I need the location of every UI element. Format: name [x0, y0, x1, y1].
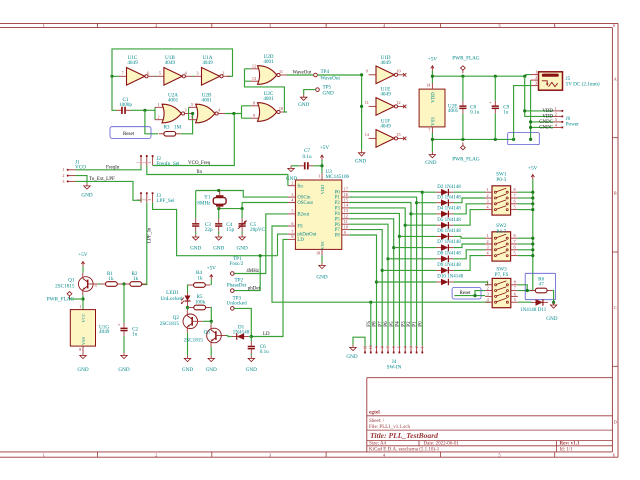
svg-text:22p: 22p	[205, 227, 213, 233]
wire R4 to LED1	[187, 285, 190, 293]
svg-text:4001: 4001	[168, 97, 179, 103]
svg-text:7: 7	[514, 239, 516, 244]
svg-text:VSS: VSS	[81, 336, 86, 345]
svg-text:3: 3	[148, 199, 152, 201]
svg-text:2: 2	[415, 346, 419, 348]
svg-text:C: C	[614, 305, 617, 310]
svg-text:1N4148: 1N4148	[520, 308, 537, 313]
resistor R5	[188, 294, 211, 310]
svg-text:3: 3	[148, 161, 152, 163]
test point TP5	[316, 85, 334, 97]
svg-text:VDD: VDD	[431, 92, 436, 103]
junction	[531, 208, 534, 211]
svg-text:P0: P0	[418, 321, 423, 327]
svg-text:P4-7: P4-7	[496, 229, 506, 235]
svg-text:To_Ext_LPF: To_Ext_LPF	[89, 177, 115, 182]
junction	[552, 301, 555, 304]
wire D7 to switch	[394, 244, 485, 248]
wire R1 to R2	[122, 283, 125, 285]
svg-text:P7: P7	[378, 321, 383, 327]
wire D8 to switch	[388, 250, 485, 259]
wire R2 right	[146, 283, 148, 286]
svg-text:6: 6	[392, 346, 396, 348]
svg-text:20pVC: 20pVC	[250, 227, 266, 233]
test point TP1	[230, 256, 244, 276]
junction P4	[398, 235, 401, 238]
svg-text:FS: FS	[367, 321, 372, 327]
junction	[531, 242, 534, 245]
inverter U1C	[119, 55, 155, 85]
wire P5	[349, 219, 393, 346]
wire U1C out to U1B in	[155, 75, 156, 77]
svg-text:9: 9	[253, 113, 255, 118]
diode D7	[436, 240, 461, 251]
svg-text:5: 5	[514, 297, 516, 302]
junction	[431, 138, 434, 141]
svg-text:5V DC (2.1mm): 5V DC (2.1mm)	[566, 80, 600, 87]
wire LD from U3	[251, 239, 288, 336]
svg-text:3: 3	[291, 192, 293, 197]
svg-text:B: B	[614, 191, 617, 196]
svg-text:VCO_Freq: VCO_Freq	[188, 161, 211, 166]
svg-text:1: 1	[421, 346, 425, 348]
svg-text:1N4148: 1N4148	[233, 330, 250, 336]
capacitor C2 polarized	[118, 284, 139, 353]
svg-text:P6: P6	[335, 223, 341, 228]
wire TP2 phDet	[234, 256, 260, 291]
wire crystal bottom / OSCout	[219, 203, 288, 209]
junction	[360, 105, 363, 108]
junction	[529, 126, 532, 129]
inverter U1D	[366, 55, 407, 84]
power flag Q1	[47, 292, 83, 303]
svg-text:Date: 2022-06-01: Date: 2022-06-01	[424, 442, 460, 447]
ground C5	[236, 234, 247, 251]
svg-text:P7: P7	[335, 228, 341, 233]
wire J5 sleeve to GND rail	[514, 86, 531, 140]
svg-text:12: 12	[252, 63, 256, 68]
wire Reset stub	[454, 291, 485, 296]
resistor R6	[530, 276, 552, 292]
NOR gate U2D	[251, 54, 288, 85]
svg-text:9: 9	[375, 346, 379, 348]
junction P7	[381, 269, 384, 272]
svg-text:3: 3	[555, 117, 557, 122]
svg-text:1: 1	[62, 167, 64, 172]
svg-text:VDD: VDD	[320, 185, 325, 195]
svg-text:Reset: Reset	[459, 291, 471, 296]
svg-text:13: 13	[344, 208, 348, 213]
svg-text:P1: P1	[413, 321, 418, 327]
junction	[526, 289, 529, 292]
svg-text:LPF_Sel: LPF_Sel	[156, 198, 175, 204]
svg-text:2: 2	[487, 286, 489, 291]
junction	[81, 297, 84, 300]
svg-text:1: 1	[486, 233, 488, 238]
capacitor C8	[459, 76, 479, 139]
svg-text:GND: GND	[323, 91, 334, 97]
svg-text:VDD: VDD	[542, 115, 553, 120]
svg-text:Unlocked: Unlocked	[227, 300, 248, 306]
svg-text:VSS: VSS	[320, 241, 325, 250]
svg-text:MC145106: MC145106	[326, 174, 350, 180]
ground U2E	[425, 152, 436, 166]
svg-text:PWR_FLAG: PWR_FLAG	[47, 297, 75, 303]
svg-text:2: 2	[555, 112, 557, 117]
junction	[531, 191, 534, 194]
junction	[523, 75, 526, 78]
wire Q1 emitter	[82, 295, 84, 309]
junction	[523, 109, 526, 112]
svg-text:1: 1	[555, 106, 557, 111]
svg-text:1k: 1k	[108, 276, 114, 282]
svg-text:1: 1	[79, 304, 81, 309]
svg-text:GNDC: GNDC	[539, 120, 553, 125]
svg-text:GND: GND	[355, 158, 366, 164]
annotation box power gnd	[508, 133, 540, 145]
wire GND rail bottom	[432, 133, 513, 152]
transistor Q1	[55, 273, 98, 296]
power +5V U3	[320, 145, 330, 160]
capacitor C6	[248, 337, 269, 356]
svg-text:12: 12	[344, 214, 348, 219]
svg-text:7: 7	[514, 193, 516, 198]
svg-text:15p: 15p	[226, 227, 234, 233]
resistor R1	[100, 271, 122, 286]
switch SW3	[485, 267, 518, 308]
svg-text:1: 1	[535, 70, 537, 75]
junction	[531, 202, 534, 205]
IC U3 MC145106	[288, 169, 350, 256]
svg-text:5: 5	[159, 70, 161, 75]
svg-text:8: 8	[291, 234, 293, 239]
svg-text:GND: GND	[190, 246, 201, 252]
junction	[241, 207, 244, 210]
capacitor C9 polarized	[489, 76, 510, 139]
connector J5 barrel jack	[531, 70, 600, 91]
inverter U1E	[365, 87, 407, 116]
ground J4	[346, 345, 357, 360]
svg-text:Sheet: /: Sheet: /	[369, 419, 385, 424]
IC U1G 4049 spare	[70, 304, 109, 353]
svg-text:4049: 4049	[202, 60, 213, 66]
svg-text:2: 2	[222, 70, 224, 75]
NOR gate U2A	[155, 92, 192, 123]
ground Q3	[206, 356, 217, 373]
wire P3	[349, 208, 405, 346]
svg-text:7: 7	[386, 346, 390, 348]
svg-text:4001: 4001	[263, 96, 274, 102]
switch SW2	[485, 223, 518, 261]
svg-text:11: 11	[279, 69, 283, 74]
wire U2A out to U2B in	[189, 107, 193, 119]
svg-text:+5V: +5V	[428, 56, 438, 62]
diode D10	[436, 275, 463, 286]
test point TP2	[227, 277, 247, 292]
svg-text:2SC1815: 2SC1815	[55, 283, 75, 289]
junction	[143, 109, 146, 112]
svg-text:3: 3	[94, 283, 96, 288]
wire Q2 emitter to ground	[187, 333, 189, 356]
svg-text:2: 2	[62, 173, 64, 178]
wire switch pin to rail	[518, 209, 533, 211]
svg-text:7: 7	[121, 70, 123, 75]
ground C3	[190, 234, 201, 251]
wire R3 to U2A out	[181, 114, 193, 134]
svg-text:P8: P8	[373, 321, 378, 327]
svg-text:1k: 1k	[133, 276, 139, 282]
svg-text:LPF_In: LPF_In	[148, 227, 153, 243]
resistor R2	[125, 271, 147, 286]
wire LD node	[249, 336, 252, 338]
svg-text:15: 15	[396, 132, 400, 137]
svg-text:7: 7	[291, 229, 293, 234]
svg-text:LD: LD	[297, 238, 304, 243]
svg-text:1: 1	[137, 199, 141, 201]
svg-text:1u: 1u	[503, 110, 509, 116]
svg-text:Id: 1/1: Id: 1/1	[560, 447, 574, 452]
svg-text:7: 7	[514, 286, 516, 291]
junction	[191, 112, 194, 115]
power +5V R4	[207, 266, 217, 280]
svg-text:4001: 4001	[263, 59, 274, 65]
NOR gate U2B	[189, 92, 226, 123]
junction	[494, 138, 497, 141]
svg-text:GND: GND	[77, 367, 88, 373]
capacitor C1	[117, 97, 133, 114]
wire TP4 to buffers	[317, 74, 361, 76]
wire D6 to switch	[399, 236, 485, 238]
wire crystal top / OSCin	[196, 191, 288, 198]
wire switch pin to rail	[518, 191, 533, 193]
ground D11	[546, 302, 557, 321]
wire switch pin to rail	[518, 237, 533, 239]
transistor Q3	[184, 324, 226, 347]
wire C1 left	[112, 76, 117, 110]
svg-text:10: 10	[279, 106, 283, 111]
wire switch pin to rail	[518, 197, 533, 199]
svg-text:1: 1	[318, 174, 320, 179]
diode D8	[436, 251, 461, 262]
ground Q2	[182, 356, 193, 373]
svg-text:GND: GND	[182, 367, 193, 373]
capacitor C4	[215, 209, 234, 235]
svg-text:fin: fin	[297, 184, 303, 189]
svg-text:Rev: v1.1: Rev: v1.1	[560, 442, 580, 447]
inverter U1B	[156, 55, 192, 85]
junction	[360, 73, 363, 76]
svg-text:100k: 100k	[195, 299, 206, 305]
wire P8	[349, 235, 376, 346]
ground buffer rail	[355, 150, 366, 164]
wire TP5 to ground	[304, 90, 316, 95]
svg-text:+5V: +5V	[528, 165, 538, 171]
wire FreqIn	[76, 166, 142, 170]
wire switch +5V rail	[518, 180, 533, 291]
wire buffer input rail	[361, 75, 363, 150]
wire Q1 base to R1	[98, 283, 101, 285]
svg-text:+5V: +5V	[320, 145, 330, 151]
diode D2	[436, 185, 461, 196]
svg-text:4049: 4049	[99, 329, 110, 335]
wire J1 pin2 to ground	[76, 176, 88, 184]
svg-text:2: 2	[535, 75, 537, 80]
power +5V Q1	[78, 252, 88, 267]
NOR gate U2C	[251, 91, 288, 122]
junction	[122, 282, 125, 285]
svg-text:TP4: TP4	[321, 69, 330, 75]
svg-text:3: 3	[486, 199, 488, 204]
wire R5 to Q2 base	[203, 308, 212, 322]
wire U2B out	[225, 106, 250, 118]
wire TP3 to LD node	[234, 308, 251, 336]
svg-text:1k: 1k	[197, 275, 203, 281]
svg-text:1M: 1M	[174, 125, 182, 131]
svg-text:4049: 4049	[380, 60, 391, 66]
power +5V switch rail	[528, 165, 538, 179]
resistor R4	[188, 270, 211, 287]
svg-text:D8 1N4148: D8 1N4148	[437, 251, 461, 256]
svg-text:4049: 4049	[165, 60, 176, 66]
junction P1	[415, 201, 418, 204]
svg-text:4001: 4001	[201, 97, 212, 103]
switch SW1	[485, 172, 518, 216]
wire D3 to switch	[417, 198, 485, 203]
wire D2 to switch	[422, 191, 485, 193]
svg-text:1: 1	[487, 280, 489, 285]
wire D1 left	[228, 336, 232, 337]
ground TP5	[298, 95, 309, 109]
junction	[217, 207, 220, 210]
svg-text:GND: GND	[246, 367, 257, 373]
svg-text:P3: P3	[401, 321, 406, 327]
test point TP3	[227, 295, 248, 310]
connector J1 VCO	[62, 159, 86, 184]
svg-text:5: 5	[514, 205, 516, 210]
svg-text:5: 5	[398, 346, 402, 348]
wire To_Ext_LPF	[76, 181, 142, 200]
ground J1	[81, 183, 92, 198]
svg-text:GND: GND	[206, 367, 217, 373]
wire D9 to switch	[382, 256, 485, 271]
wire GNDC feed	[531, 80, 554, 139]
svg-text:B2out: B2out	[297, 213, 309, 218]
annotation box Reset 2	[452, 287, 481, 299]
svg-text:8: 8	[514, 187, 516, 192]
svg-text:D10 1N4148: D10 1N4148	[437, 275, 463, 280]
svg-text:P0: P0	[335, 190, 341, 195]
capacitor C7	[299, 148, 313, 169]
wire P2	[349, 203, 411, 346]
svg-text:GND: GND	[213, 246, 224, 252]
svg-text:1000p: 1000p	[119, 102, 132, 108]
svg-text:KiCad E.D.A. eeschema (5.1.10: KiCad E.D.A. eeschema (5.1.10)-1	[369, 447, 440, 452]
svg-text:5: 5	[514, 251, 516, 256]
junction P0	[421, 191, 424, 194]
diode D6	[436, 229, 461, 240]
svg-text:PWR_FLAG: PWR_FLAG	[452, 56, 480, 62]
svg-text:12: 12	[396, 100, 400, 105]
junction P8	[375, 280, 378, 283]
svg-text:GND: GND	[236, 246, 247, 252]
IC U2E 4001 spare gate	[419, 83, 459, 133]
junction	[461, 75, 464, 78]
svg-text:0.1u: 0.1u	[470, 110, 479, 116]
wire SW3 pin5 to D11	[518, 301, 531, 303]
svg-text:4MHz: 4MHz	[246, 269, 260, 274]
svg-text:11: 11	[365, 100, 369, 105]
svg-text:GND: GND	[346, 354, 357, 360]
diode D5	[436, 218, 461, 229]
svg-text:GND: GND	[298, 102, 309, 108]
svg-text:2: 2	[157, 115, 159, 120]
svg-text:9: 9	[366, 69, 368, 74]
wire Q3 emitter to ground	[210, 347, 212, 356]
wire Reset net down	[145, 110, 158, 134]
svg-text:6: 6	[147, 70, 149, 75]
svg-text:VSS: VSS	[431, 117, 436, 126]
junction	[110, 75, 113, 78]
connector J6 Power	[539, 106, 579, 131]
svg-text:P8: P8	[335, 234, 341, 239]
svg-text:+5V: +5V	[78, 252, 88, 258]
ground C4	[213, 234, 224, 251]
wire J4 ground	[353, 337, 365, 346]
svg-text:Reset: Reset	[123, 132, 135, 137]
svg-text:P4: P4	[396, 321, 401, 327]
svg-text:WaveOut: WaveOut	[293, 71, 312, 76]
wire switch pin to rail	[518, 255, 533, 257]
svg-text:D11: D11	[538, 308, 547, 313]
svg-text:6: 6	[514, 291, 516, 296]
capacitor C5 variable	[238, 209, 266, 235]
svg-text:D3 1N4148: D3 1N4148	[437, 195, 461, 200]
svg-text:D2 1N4148: D2 1N4148	[437, 185, 461, 190]
svg-text:R3: R3	[163, 125, 169, 131]
svg-text:TP5: TP5	[323, 85, 332, 91]
svg-text:3: 3	[409, 346, 413, 348]
svg-text:6: 6	[191, 115, 193, 120]
svg-text:LD: LD	[263, 332, 270, 337]
wire phDetOut	[278, 234, 288, 256]
ground C6	[246, 356, 257, 373]
annotation box R6	[525, 273, 555, 299]
junction	[250, 335, 253, 338]
svg-text:P5: P5	[390, 321, 395, 327]
wire fin	[147, 166, 288, 186]
svg-text:D9 1N4148: D9 1N4148	[437, 263, 461, 268]
junction	[186, 306, 189, 309]
wire VDD feed	[525, 76, 554, 116]
ground U3 VSS	[316, 256, 327, 281]
annotation box Reset	[110, 127, 151, 139]
junction	[217, 189, 220, 192]
ground C2	[118, 353, 129, 373]
svg-text:P0-3: P0-3	[496, 177, 506, 183]
svg-text:6: 6	[291, 221, 293, 226]
wire Q1 collector	[82, 267, 84, 273]
svg-text:4049: 4049	[380, 92, 391, 98]
svg-text:VCC: VCC	[81, 313, 86, 322]
junction	[512, 138, 515, 141]
junction	[494, 75, 497, 78]
wire P1	[349, 197, 416, 346]
svg-text:3: 3	[535, 81, 537, 86]
wire C1 to U2A	[131, 107, 156, 119]
diode D4	[436, 207, 461, 218]
svg-text:8: 8	[253, 100, 255, 105]
wire D4 to switch	[411, 204, 485, 214]
